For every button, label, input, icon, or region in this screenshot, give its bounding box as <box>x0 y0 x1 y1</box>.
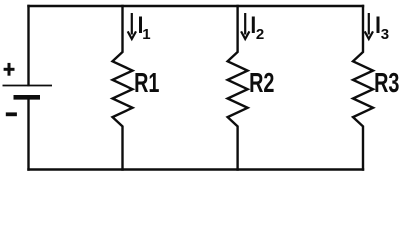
svg-text:1: 1 <box>142 26 150 43</box>
svg-text:R3: R3 <box>374 68 399 99</box>
svg-text:R2: R2 <box>249 68 274 99</box>
svg-text:2: 2 <box>256 26 264 43</box>
svg-text:3: 3 <box>381 26 389 43</box>
svg-text:R1: R1 <box>134 68 159 99</box>
